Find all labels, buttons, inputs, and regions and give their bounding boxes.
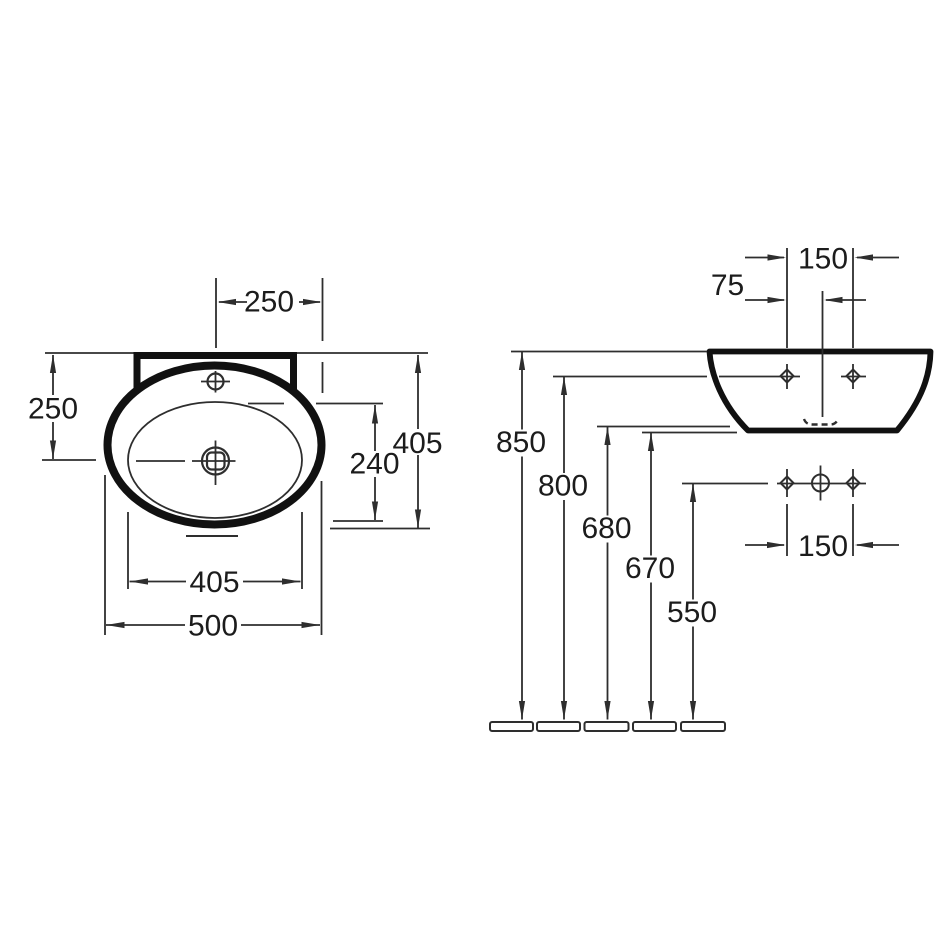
dimension 500: extension line left — [104, 475, 106, 635]
dimension label 550 — [669, 600, 719, 627]
dimension 250 top: arrow right — [303, 299, 322, 305]
basin vertical centerline (side view) — [822, 291, 824, 417]
floor tile 2 — [537, 722, 580, 731]
dimension 800: arrow up — [561, 377, 567, 396]
dimension label 405 (bottom) — [186, 568, 243, 594]
basin inner bowl (top view) — [128, 402, 302, 518]
dimension 150 bottom: extension line left — [786, 504, 788, 556]
dimension 550: dimension line — [692, 484, 694, 720]
drain centerline horizontal — [192, 460, 236, 462]
670 extension line — [642, 432, 737, 434]
svg-text:670: 670 — [625, 552, 675, 585]
tap hole (top view) — [208, 374, 224, 390]
550 extension line — [682, 483, 768, 485]
850 extension line (rim top) — [511, 351, 707, 353]
mounting holes centerline horizontal — [777, 483, 866, 485]
dimension label 405 (right) — [390, 429, 445, 455]
floor tile 1 — [490, 722, 533, 731]
svg-text:75: 75 — [711, 269, 744, 302]
bowl centerline horizontal left — [136, 460, 185, 462]
svg-text:250: 250 — [244, 286, 294, 319]
svg-text:500: 500 — [188, 610, 238, 643]
dimension 405 bottom: arrow left — [130, 578, 149, 584]
drain trap hidden line below basin — [186, 535, 238, 537]
dimension 680: arrow down — [604, 701, 610, 720]
dimension 405 bottom: dimension line — [130, 581, 301, 583]
dimension 670: arrow down — [648, 701, 654, 720]
left mounting hole centerline vertical — [786, 469, 788, 497]
wall reference line (top view) — [45, 352, 428, 354]
dimension 405 right: dimension line — [417, 355, 419, 528]
dimension 670: dimension line — [650, 433, 652, 720]
dimension 250 left: dimension line — [52, 355, 54, 459]
dimension 150 top: extension line right — [852, 248, 854, 348]
dimension 240: extension line bottom — [333, 520, 383, 522]
800 extension line (tap holes) — [553, 376, 707, 378]
dimension 150 bottom: arrow right — [855, 542, 874, 548]
dimension 405 right: extension line bottom — [330, 528, 430, 530]
dimension 550: arrow up — [690, 484, 696, 503]
dimension 850: arrow up — [519, 352, 525, 371]
dimension 680: arrow up — [604, 427, 610, 446]
dimension 850: dimension line — [521, 352, 523, 720]
dimension 150 top: arrow right — [855, 254, 874, 260]
dimension 150 bottom: arrow left — [767, 542, 786, 548]
drain centerline vertical — [215, 441, 217, 486]
basin profile (side view) — [710, 352, 931, 431]
dimension 250 left: arrow down — [50, 441, 56, 460]
drain inner square (top view) — [207, 453, 225, 470]
tap hole centerline vertical — [215, 371, 217, 393]
dimension 680: dimension line — [607, 427, 609, 720]
svg-text:150: 150 — [798, 243, 848, 276]
svg-text:150: 150 — [798, 530, 848, 563]
left mounting hole diamond — [781, 477, 794, 490]
dimension 250 top: leader left — [219, 301, 247, 303]
drain outer circle (top view) — [202, 448, 229, 475]
floor tile 4 — [633, 722, 676, 731]
dimension 405 right: arrow up — [415, 355, 421, 374]
dimension label 850 — [496, 430, 546, 457]
dimension 150 top: leader right — [857, 257, 899, 259]
dimension 150 top: arrow left — [768, 254, 787, 260]
dimension 500: dimension line — [106, 624, 320, 626]
dimension label 240 — [347, 451, 402, 477]
svg-text:250: 250 — [28, 393, 78, 426]
dimension 150 bottom: leader right — [857, 544, 899, 546]
dimension 405 bottom: extension line left — [127, 512, 129, 589]
right tap hole centerline horizontal — [841, 376, 866, 378]
dimension 75: leader left — [745, 299, 784, 301]
dimension 240: arrow up — [372, 405, 378, 424]
dimension 250 top: extension line right (lower dashed) — [322, 362, 324, 393]
svg-text:680: 680 — [581, 512, 631, 545]
dimension 500: arrow left — [106, 622, 125, 628]
dimension 150 bottom: leader left — [745, 544, 784, 546]
floor tile 3 — [585, 722, 629, 731]
tap holes centerline inside basin — [719, 376, 800, 378]
svg-text:550: 550 — [667, 596, 717, 629]
dimension label 250 (left) — [26, 395, 80, 422]
svg-text:240: 240 — [349, 448, 399, 481]
right tap hole centerline vertical — [852, 364, 854, 389]
dimension 800: dimension line — [563, 377, 565, 720]
dimension 150 bottom: extension line right — [852, 504, 854, 556]
svg-text:800: 800 — [538, 470, 588, 503]
dimension label 800 — [540, 473, 590, 500]
dimension 670: arrow up — [648, 433, 654, 452]
right mounting hole centerline vertical — [852, 469, 854, 497]
right mounting hole diamond — [847, 477, 860, 490]
center mounting hole centerline vertical — [820, 466, 822, 501]
dimension 800: arrow down — [561, 701, 567, 720]
dimension 250 top: leader right — [299, 301, 320, 303]
floor tile 5 — [681, 722, 725, 731]
basin back ledge / collar (top view) — [137, 356, 294, 393]
svg-text:850: 850 — [496, 426, 546, 459]
dimension 405 right: arrow down — [415, 510, 421, 529]
dimension 250 left: extension line bottom — [42, 459, 96, 461]
dimension label 500 — [185, 612, 241, 638]
dimension 850: arrow down — [519, 701, 525, 720]
tap hole centerline horizontal — [201, 381, 230, 383]
left tap hole centerline vertical — [786, 364, 788, 389]
dimension 75: arrow right — [824, 297, 843, 303]
dimension 550: arrow down — [690, 701, 696, 720]
dimension 150 top: leader left — [745, 257, 784, 259]
right tap hole diamond (side view) — [847, 370, 860, 383]
center mounting hole circle — [812, 475, 829, 492]
dimension label 670 — [627, 556, 677, 583]
dimension 240: arrow down — [372, 502, 378, 521]
dimension 250 top: arrow left — [218, 299, 237, 305]
dimension label 680 — [583, 516, 633, 543]
dimension 240: dimension line — [374, 405, 376, 520]
dimension 500: arrow right — [302, 622, 321, 628]
left tap hole diamond (side view) — [781, 370, 794, 383]
svg-text:405: 405 — [189, 566, 239, 599]
680 extension line — [597, 426, 730, 428]
dimension 250 top: extension line left — [215, 278, 217, 348]
dimension 405 bottom: extension line right — [301, 512, 303, 589]
basin outer rim (top view) — [108, 366, 322, 525]
dimension 250 top: extension line right (upper) — [322, 278, 324, 341]
dimension 500: extension line right — [321, 481, 323, 635]
dimension 75: arrow left — [768, 297, 787, 303]
dimension 405 bottom: arrow right — [282, 578, 301, 584]
dimension 250 left: arrow up — [50, 355, 56, 374]
dimension 75: leader right — [826, 299, 866, 301]
dimension 240: extension line top — [248, 403, 284, 405]
dimension 150 top: extension line left — [786, 248, 788, 348]
drain dashed mark (side view) — [804, 419, 838, 425]
